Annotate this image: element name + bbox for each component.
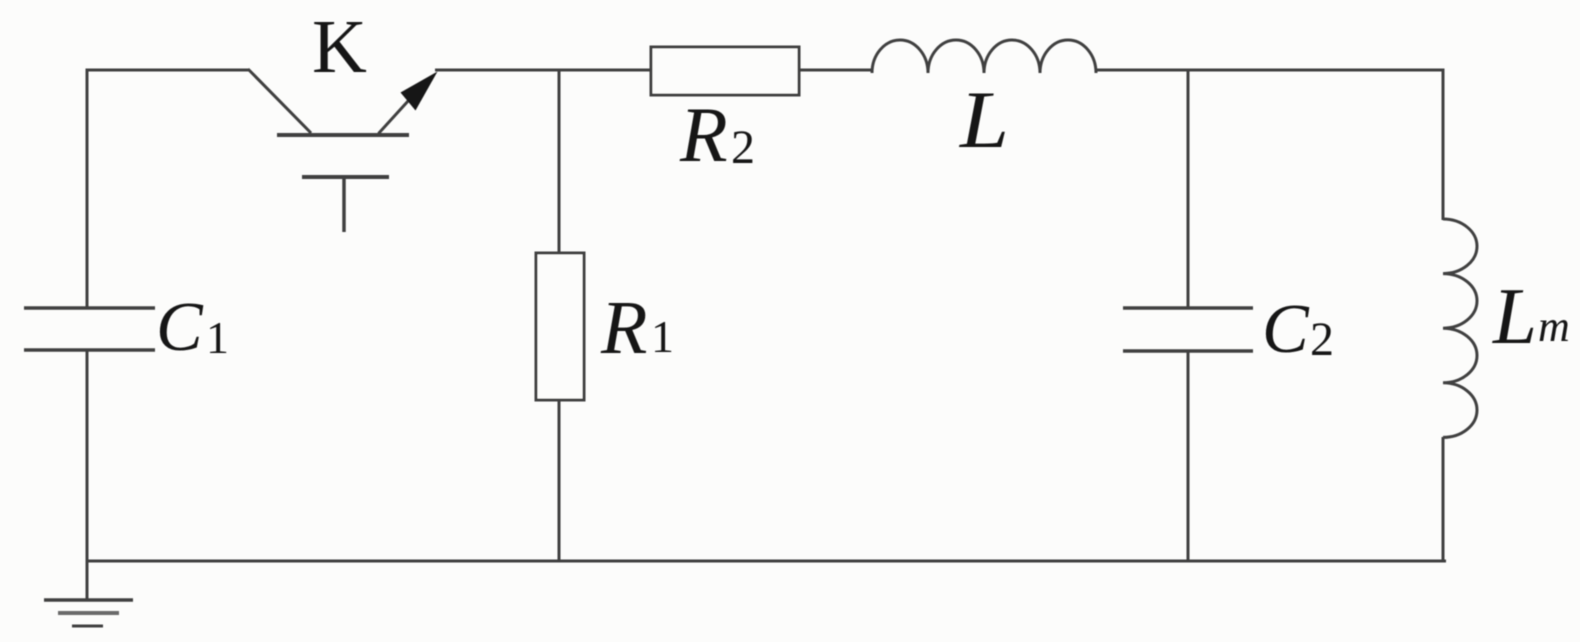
wire right branch upper	[1442, 69, 1445, 221]
svg-text:C: C	[156, 289, 204, 366]
wire C1 lower	[86, 350, 89, 563]
svg-text:m: m	[1538, 302, 1570, 351]
capacitor C1 top plate	[24, 306, 155, 310]
svg-text:1: 1	[206, 312, 229, 363]
ground bar 1	[44, 598, 133, 602]
bottom bus wire	[87, 560, 1446, 563]
svg-text:L: L	[1492, 273, 1537, 361]
wire top segment middle	[435, 69, 651, 72]
wire L to corner	[1096, 69, 1445, 72]
ground bar 2	[58, 611, 119, 615]
capacitor C2 top plate	[1123, 306, 1253, 310]
transistor K emitter arrow line	[379, 89, 420, 134]
ground bar 3	[72, 625, 103, 628]
wire C2 branch upper	[1187, 70, 1190, 308]
svg-text:C: C	[1262, 291, 1310, 368]
svg-text:2: 2	[1310, 313, 1334, 366]
capacitor C1 bottom plate	[24, 348, 155, 352]
wire R1 branch upper	[558, 70, 561, 254]
resistor R2	[651, 47, 799, 95]
wire right branch lower	[1442, 437, 1445, 563]
svg-text:L: L	[959, 74, 1009, 165]
svg-text:1: 1	[651, 311, 674, 362]
svg-text:R: R	[600, 286, 647, 370]
svg-text:K: K	[312, 5, 367, 89]
wire top-left vertical	[86, 70, 89, 308]
wire R1 branch lower	[558, 400, 561, 561]
transistor K collector slope	[248, 69, 311, 133]
wire top segment left	[86, 69, 250, 72]
transistor K bar	[277, 133, 409, 137]
wire C2 branch lower	[1187, 351, 1190, 561]
inductor L	[872, 40, 1096, 73]
ground lead	[86, 561, 89, 600]
transistor K arrowhead	[401, 72, 438, 111]
resistor R1	[536, 253, 584, 400]
capacitor C2 bottom plate	[1123, 349, 1253, 353]
inductor Lm	[1443, 219, 1477, 437]
transistor K gate lead	[342, 177, 346, 232]
transistor K gate bar	[302, 175, 389, 179]
svg-text:R: R	[679, 91, 728, 178]
wire R2 to L	[799, 69, 873, 72]
svg-text:2: 2	[731, 121, 755, 174]
